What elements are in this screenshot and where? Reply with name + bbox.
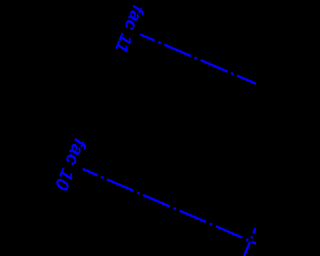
facet line fac 10: [83, 169, 258, 245]
facet line bottom right: [244, 228, 256, 256]
facet line fac 11: [140, 34, 258, 84]
